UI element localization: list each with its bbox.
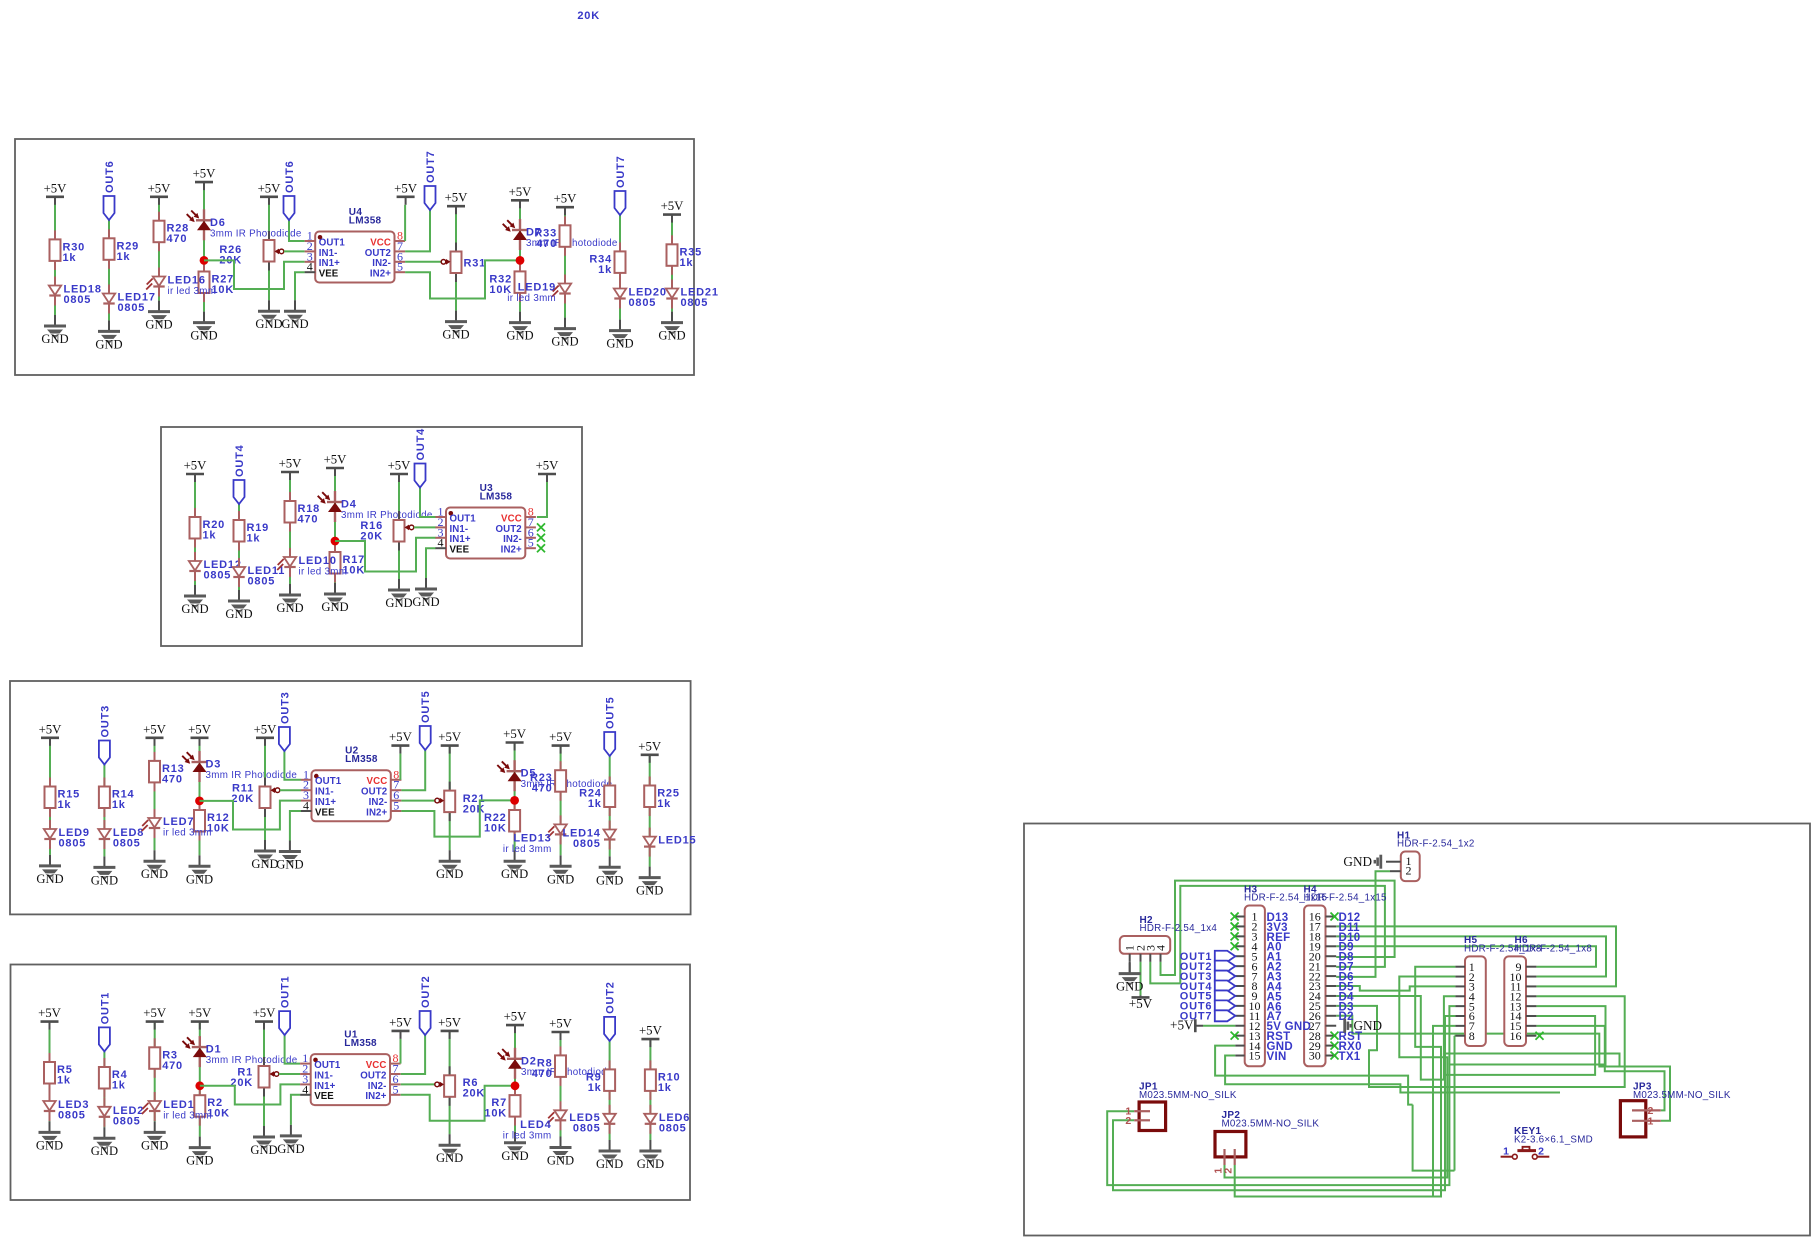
net flag OUT4 xyxy=(234,480,245,504)
jumper pad JP3 xyxy=(1620,1101,1645,1137)
wire H5.7 branch xyxy=(1433,1026,1455,1197)
photodiode D3 xyxy=(198,751,200,762)
ground xyxy=(103,1127,105,1138)
ground xyxy=(564,318,566,329)
wire D11 to H6.11 xyxy=(1336,926,1616,986)
svg-text:GND: GND xyxy=(181,602,208,616)
svg-text:+5V: +5V xyxy=(438,1015,462,1029)
svg-text:VCC: VCC xyxy=(366,1060,387,1071)
no-connect H4.30 xyxy=(1331,1052,1339,1060)
net flag OUT6 xyxy=(104,196,115,220)
svg-text:GND: GND xyxy=(276,601,303,615)
wire H5.5 branch xyxy=(1449,1006,1455,1064)
wire H3.15 VIN corridor xyxy=(1225,1056,1560,1093)
pin H3.9 A5 xyxy=(1235,995,1244,997)
svg-text:OUT2: OUT2 xyxy=(365,248,391,259)
svg-text:10K: 10K xyxy=(484,823,507,835)
wire xyxy=(263,1022,265,1126)
svg-text:470: 470 xyxy=(536,238,557,250)
svg-text:1k: 1k xyxy=(657,798,671,810)
svg-text:1k: 1k xyxy=(112,799,126,811)
pin H2.3 xyxy=(1149,954,1151,962)
svg-text:IN2+: IN2+ xyxy=(365,1091,386,1102)
photodiode D4 xyxy=(334,491,336,502)
pin H4.24 D4 xyxy=(1326,995,1337,997)
pin H5.7 xyxy=(1455,1025,1465,1027)
svg-text:+5V: +5V xyxy=(389,730,413,744)
svg-text:+5V: +5V xyxy=(193,167,217,181)
resistor R28 xyxy=(158,212,160,221)
svg-text:+5V: +5V xyxy=(638,739,662,753)
svg-text:OUT7: OUT7 xyxy=(615,155,627,188)
svg-text:GND: GND xyxy=(141,867,168,881)
LED LED10 xyxy=(289,548,291,557)
svg-text:30: 30 xyxy=(1309,1049,1321,1063)
ground xyxy=(334,583,336,594)
svg-text:D2: D2 xyxy=(1339,1011,1354,1023)
wire JP2.2 to H5.1 xyxy=(1235,967,1456,1197)
pin H5.3 xyxy=(1455,985,1465,987)
resistor R4 xyxy=(103,1058,105,1067)
wire xyxy=(289,220,305,241)
ground xyxy=(54,315,56,326)
ground xyxy=(425,578,427,589)
pin H5.1 xyxy=(1455,966,1465,968)
no-connect pin 6 xyxy=(537,534,545,542)
pin H5.2 xyxy=(1455,976,1465,978)
svg-text:LED7: LED7 xyxy=(163,816,194,828)
wire xyxy=(280,789,301,791)
LED LED19 xyxy=(564,275,566,284)
resistor R10 xyxy=(649,1060,651,1069)
svg-text:8: 8 xyxy=(1469,1029,1475,1043)
svg-text:ir led 3mm: ir led 3mm xyxy=(507,293,556,304)
wire D2 to JP3.1 xyxy=(1336,1016,1670,1121)
svg-text:D4: D4 xyxy=(341,499,357,511)
svg-text:GND: GND xyxy=(281,317,308,331)
svg-text:+5V: +5V xyxy=(445,191,469,205)
no-connect H4.28 xyxy=(1331,1032,1339,1040)
ground xyxy=(49,1121,51,1132)
svg-text:IN1-: IN1- xyxy=(315,787,334,798)
svg-text:20K: 20K xyxy=(463,1087,486,1099)
no-connect H3.4 xyxy=(1231,942,1239,950)
net flag OUT5 xyxy=(604,732,615,756)
svg-text:+5V: +5V xyxy=(438,730,462,744)
svg-text:1k: 1k xyxy=(58,799,72,811)
pin H4.23 D5 xyxy=(1326,985,1337,987)
wire xyxy=(404,205,406,241)
net flag OUT2 xyxy=(420,1011,431,1035)
wire H3.14 GND corridor xyxy=(1215,1046,1413,1105)
wire xyxy=(154,1022,156,1122)
pin H3.6 A2 xyxy=(1235,965,1244,967)
svg-text:0805: 0805 xyxy=(113,838,141,850)
wire +5V to H3.12 xyxy=(1203,1025,1235,1027)
pin H3.5 A1 xyxy=(1235,955,1244,957)
svg-text:2: 2 xyxy=(1406,864,1412,878)
svg-text:OUT2: OUT2 xyxy=(605,981,617,1014)
svg-text:GND: GND xyxy=(547,1154,574,1168)
svg-text:GND: GND xyxy=(255,317,282,331)
net flag OUT7 xyxy=(1215,1010,1236,1021)
net flag OUT4 xyxy=(1215,981,1236,992)
header H2 xyxy=(1120,936,1170,954)
svg-text:+5V: +5V xyxy=(549,1017,573,1031)
svg-text:GND: GND xyxy=(41,332,68,346)
no-connect H3.2 xyxy=(1231,922,1239,930)
svg-text:5: 5 xyxy=(397,260,403,274)
svg-text:IN2-: IN2- xyxy=(369,797,388,808)
wire H1.2 to D6 xyxy=(1336,871,1390,977)
svg-text:OUT3: OUT3 xyxy=(99,705,111,738)
svg-text:+5V: +5V xyxy=(148,181,172,195)
wire xyxy=(414,526,436,528)
wire xyxy=(519,200,521,311)
net flag OUT2 xyxy=(604,1017,615,1041)
wire JP1.2 to H6.14 xyxy=(1113,1016,1595,1190)
wire xyxy=(560,1032,562,1137)
net flag OUT3 xyxy=(1215,971,1236,982)
pin H4.16 D12 xyxy=(1326,916,1337,918)
LED LED3 xyxy=(49,1092,51,1101)
LED LED9 xyxy=(49,820,51,829)
wire xyxy=(401,800,434,802)
svg-text:+5V: +5V xyxy=(1170,1018,1194,1033)
ground flag H4.27 xyxy=(1343,1019,1346,1033)
svg-text:GND: GND xyxy=(186,872,213,886)
svg-text:+5V: +5V xyxy=(509,185,533,199)
svg-text:+5V: +5V xyxy=(254,722,278,736)
resistor R34 xyxy=(619,242,621,251)
trimmer R21 xyxy=(449,782,451,791)
wire D4 to H5.4 xyxy=(1336,996,1444,1080)
net flag OUT3 xyxy=(99,741,110,765)
svg-text:GND: GND xyxy=(436,867,463,881)
svg-text:4: 4 xyxy=(302,1082,308,1096)
ground xyxy=(449,1134,451,1145)
wire xyxy=(401,1086,515,1121)
pin H5.4 xyxy=(1455,995,1465,997)
resistor R20 xyxy=(194,508,196,517)
wire xyxy=(200,1084,300,1104)
resistor R7 xyxy=(514,1086,516,1095)
svg-text:GND: GND xyxy=(636,884,663,898)
svg-text:1k: 1k xyxy=(247,533,261,545)
no-connect H4.29 xyxy=(1331,1042,1339,1050)
resistor R29 xyxy=(108,229,110,238)
svg-text:LED10: LED10 xyxy=(299,555,337,567)
svg-text:GND: GND xyxy=(501,1149,528,1163)
svg-text:5: 5 xyxy=(528,536,534,550)
wire JP3.2 to H6.15 xyxy=(1536,1026,1664,1111)
svg-text:+5V: +5V xyxy=(1129,996,1153,1011)
svg-text:0805: 0805 xyxy=(118,302,146,314)
pin H3.3 REF xyxy=(1235,935,1244,937)
wire H2.4 to D8 xyxy=(1161,881,1395,975)
svg-text:IN1+: IN1+ xyxy=(314,1081,335,1092)
pin H3.14 GND xyxy=(1235,1045,1244,1047)
svg-text:R31: R31 xyxy=(464,257,487,269)
svg-text:0805: 0805 xyxy=(58,1110,86,1122)
svg-text:4: 4 xyxy=(303,799,309,813)
resistor R33 xyxy=(564,216,566,225)
svg-text:IN2+: IN2+ xyxy=(366,807,387,818)
wire xyxy=(204,260,305,289)
LED LED7 xyxy=(154,809,156,818)
wire xyxy=(291,1095,300,1125)
pin H3.15 VIN xyxy=(1235,1055,1244,1057)
ground xyxy=(649,867,651,878)
wire xyxy=(455,206,457,310)
pin H1.2 xyxy=(1390,870,1401,872)
svg-text:OUT2: OUT2 xyxy=(420,975,432,1008)
svg-text:470: 470 xyxy=(162,1060,183,1072)
wire JP2.1 to H5.2 xyxy=(1225,977,1456,1178)
trimmer R26 xyxy=(268,231,270,240)
resistor R5 xyxy=(49,1053,51,1062)
svg-text:+5V: +5V xyxy=(279,457,303,471)
pin H3.10 A6 xyxy=(1235,1005,1244,1007)
svg-text:0805: 0805 xyxy=(573,1122,601,1134)
svg-text:+5V: +5V xyxy=(188,1006,212,1020)
svg-text:GND: GND xyxy=(190,329,217,343)
LED LED5 xyxy=(609,1105,611,1114)
svg-text:IN1-: IN1- xyxy=(450,524,469,535)
ground xyxy=(455,311,457,322)
net flag OUT1 xyxy=(279,1011,290,1035)
resistor R12 xyxy=(199,801,201,810)
wire xyxy=(399,754,401,780)
svg-text:OUT4: OUT4 xyxy=(234,444,246,477)
pin H4.18 D10 xyxy=(1326,935,1337,937)
svg-text:GND: GND xyxy=(321,600,348,614)
svg-text:OUT5: OUT5 xyxy=(420,690,432,723)
trimmer R6 xyxy=(449,1066,451,1075)
svg-text:LM358: LM358 xyxy=(480,491,513,502)
wire xyxy=(103,765,105,857)
svg-text:TX1: TX1 xyxy=(1339,1051,1361,1063)
net flag OUT7 xyxy=(425,186,436,210)
wire xyxy=(405,261,441,263)
svg-text:M023.5MM-NO_SILK: M023.5MM-NO_SILK xyxy=(1222,1119,1320,1130)
junction node D5/R22 xyxy=(510,796,519,805)
wire xyxy=(398,474,400,579)
svg-text:D6: D6 xyxy=(210,217,226,229)
photodiode D5 xyxy=(513,760,515,771)
ground xyxy=(263,1126,265,1137)
wire D5 to H5.3 xyxy=(1336,986,1455,991)
ground xyxy=(203,312,205,323)
svg-text:15: 15 xyxy=(1249,1049,1261,1063)
svg-text:VCC: VCC xyxy=(370,237,391,248)
junction node D2/R7 xyxy=(511,1081,520,1090)
svg-text:HDR-F-2.54_1x4: HDR-F-2.54_1x4 xyxy=(1140,923,1218,934)
junction node D4/R17 xyxy=(331,537,340,546)
pin H6.15 xyxy=(1526,1025,1536,1027)
frame block U2 channel 3/5 xyxy=(10,681,691,914)
svg-text:0805: 0805 xyxy=(204,570,232,582)
LED LED4 xyxy=(560,1101,562,1110)
wire xyxy=(400,1039,402,1064)
resistor R15 xyxy=(49,778,51,787)
svg-text:IN2-: IN2- xyxy=(372,258,391,269)
svg-text:D2: D2 xyxy=(521,1055,537,1067)
wire xyxy=(54,197,56,315)
resistor R2 xyxy=(199,1086,201,1095)
ground xyxy=(103,856,105,867)
svg-text:5: 5 xyxy=(393,1082,399,1096)
wire xyxy=(420,488,436,518)
wire xyxy=(49,1022,51,1122)
pin H6.11 xyxy=(1526,985,1536,987)
svg-text:GND: GND xyxy=(250,1143,277,1157)
ground xyxy=(514,1132,516,1143)
svg-text:1k: 1k xyxy=(63,252,77,264)
pin H5.5 xyxy=(1455,1005,1465,1007)
svg-text:GND: GND xyxy=(596,1157,623,1171)
header H6 xyxy=(1504,956,1526,1046)
svg-text:0805: 0805 xyxy=(681,297,709,309)
LED LED15 xyxy=(649,828,651,837)
pin H2.2 xyxy=(1140,954,1142,962)
svg-text:5: 5 xyxy=(393,799,399,813)
wire xyxy=(154,738,156,850)
pin H4.21 D7 xyxy=(1326,965,1337,967)
svg-text:+5V: +5V xyxy=(661,199,685,213)
svg-text:+5V: +5V xyxy=(258,181,282,195)
LED LED8 xyxy=(103,820,105,829)
resistor R17 xyxy=(334,543,336,552)
svg-text:OUT1: OUT1 xyxy=(315,776,342,787)
svg-text:1k: 1k xyxy=(203,530,217,542)
svg-text:+5V: +5V xyxy=(188,722,212,736)
svg-text:IN2+: IN2+ xyxy=(501,545,522,556)
jumper pad JP2 xyxy=(1215,1132,1246,1157)
svg-text:GND: GND xyxy=(277,1142,304,1156)
svg-text:OUT2: OUT2 xyxy=(361,787,387,798)
svg-text:OUT2: OUT2 xyxy=(496,524,522,535)
pin H4.27 GND xyxy=(1326,1025,1337,1027)
wire xyxy=(290,811,301,841)
pin H3.1 D13 xyxy=(1235,916,1244,918)
svg-text:4: 4 xyxy=(307,260,313,274)
wire H2.1 to ground xyxy=(1129,962,1131,973)
ground xyxy=(619,320,621,331)
wire xyxy=(609,756,611,856)
wire xyxy=(401,750,425,790)
pin H3.8 A4 xyxy=(1235,985,1244,987)
junction node D1/R2 xyxy=(195,1081,204,1090)
op-amp U1 xyxy=(311,1054,390,1105)
svg-text:GND: GND xyxy=(1116,980,1143,994)
net flag OUT5 xyxy=(420,726,431,750)
svg-text:GND: GND xyxy=(506,329,533,343)
LED LED1 xyxy=(154,1092,156,1101)
LED LED18 xyxy=(54,277,56,286)
op-amp U4 xyxy=(315,232,394,283)
svg-text:IN1+: IN1+ xyxy=(450,534,471,545)
svg-text:GND: GND xyxy=(436,1151,463,1165)
pin H4.20 D8 xyxy=(1326,955,1337,957)
trimmer R31 xyxy=(455,243,457,252)
svg-text:OUT3: OUT3 xyxy=(279,691,291,724)
ground xyxy=(609,856,611,867)
svg-text:ir led 3mm: ir led 3mm xyxy=(503,1130,552,1141)
wire xyxy=(284,751,301,780)
no-connect H4.16 xyxy=(1331,913,1339,921)
wire xyxy=(108,220,110,320)
svg-text:4: 4 xyxy=(1154,945,1168,951)
LED LED20 xyxy=(619,280,621,289)
pin H1.1 xyxy=(1386,861,1401,863)
wire xyxy=(619,215,621,320)
pin H2.4 xyxy=(1160,954,1162,962)
wire xyxy=(279,1073,300,1075)
svg-text:OUT6: OUT6 xyxy=(284,160,296,193)
svg-text:HDR-F-2.54_1x15: HDR-F-2.54_1x15 xyxy=(1304,893,1388,904)
svg-text:VEE: VEE xyxy=(314,1091,334,1102)
svg-text:D3: D3 xyxy=(206,759,222,771)
LED LED17 xyxy=(108,285,110,294)
svg-text:+5V: +5V xyxy=(549,730,573,744)
pin H4.26 D2 xyxy=(1326,1015,1337,1017)
wire corridor xyxy=(1413,1105,1455,1171)
op-amp U3 xyxy=(446,508,525,559)
wire xyxy=(264,738,266,840)
svg-text:LED19: LED19 xyxy=(518,282,556,294)
svg-text:OUT5: OUT5 xyxy=(605,696,617,729)
svg-text:HDR-F-2.54_1x8: HDR-F-2.54_1x8 xyxy=(1515,944,1593,955)
svg-text:0805: 0805 xyxy=(573,838,601,850)
pin H3.13 RST xyxy=(1235,1035,1244,1037)
svg-text:IN1+: IN1+ xyxy=(315,797,336,808)
trimmer R16 xyxy=(398,511,400,520)
svg-text:IN2-: IN2- xyxy=(368,1081,387,1092)
wire D10 to H6.10 xyxy=(1336,936,1606,976)
wire H2.2 to +5V xyxy=(1140,962,1142,996)
wire xyxy=(238,504,240,590)
svg-text:GND: GND xyxy=(637,1157,664,1171)
pin H4.28 RST xyxy=(1326,1035,1337,1037)
wire xyxy=(405,210,430,251)
svg-text:GND: GND xyxy=(141,1138,168,1152)
wire xyxy=(426,548,436,578)
pin H6.14 xyxy=(1526,1015,1536,1017)
pin H6.9 xyxy=(1526,966,1536,968)
svg-text:ir led 3mm: ir led 3mm xyxy=(299,567,348,578)
resistor R30 xyxy=(54,230,56,239)
svg-text:ir led 3mm: ir led 3mm xyxy=(163,1111,212,1122)
svg-text:GND: GND xyxy=(606,337,633,351)
wire D3 to H6.12 xyxy=(1336,996,1625,1087)
ground xyxy=(519,312,521,323)
svg-text:0805: 0805 xyxy=(248,576,276,588)
svg-text:470: 470 xyxy=(298,514,319,526)
wire xyxy=(199,738,201,856)
wire xyxy=(649,755,651,867)
ground xyxy=(560,1137,562,1148)
resistor R25 xyxy=(649,777,651,786)
svg-text:GND: GND xyxy=(547,872,574,886)
pin H6.10 xyxy=(1526,976,1536,978)
svg-text:ir led 3mm: ir led 3mm xyxy=(168,286,217,297)
svg-text:GND: GND xyxy=(596,873,623,887)
pin H3.12 5V xyxy=(1235,1025,1244,1027)
svg-text:K2-3.6×6.1_SMD: K2-3.6×6.1_SMD xyxy=(1514,1134,1593,1145)
svg-text:LED15: LED15 xyxy=(658,835,696,847)
no-connect H6.16 xyxy=(1536,1032,1544,1040)
